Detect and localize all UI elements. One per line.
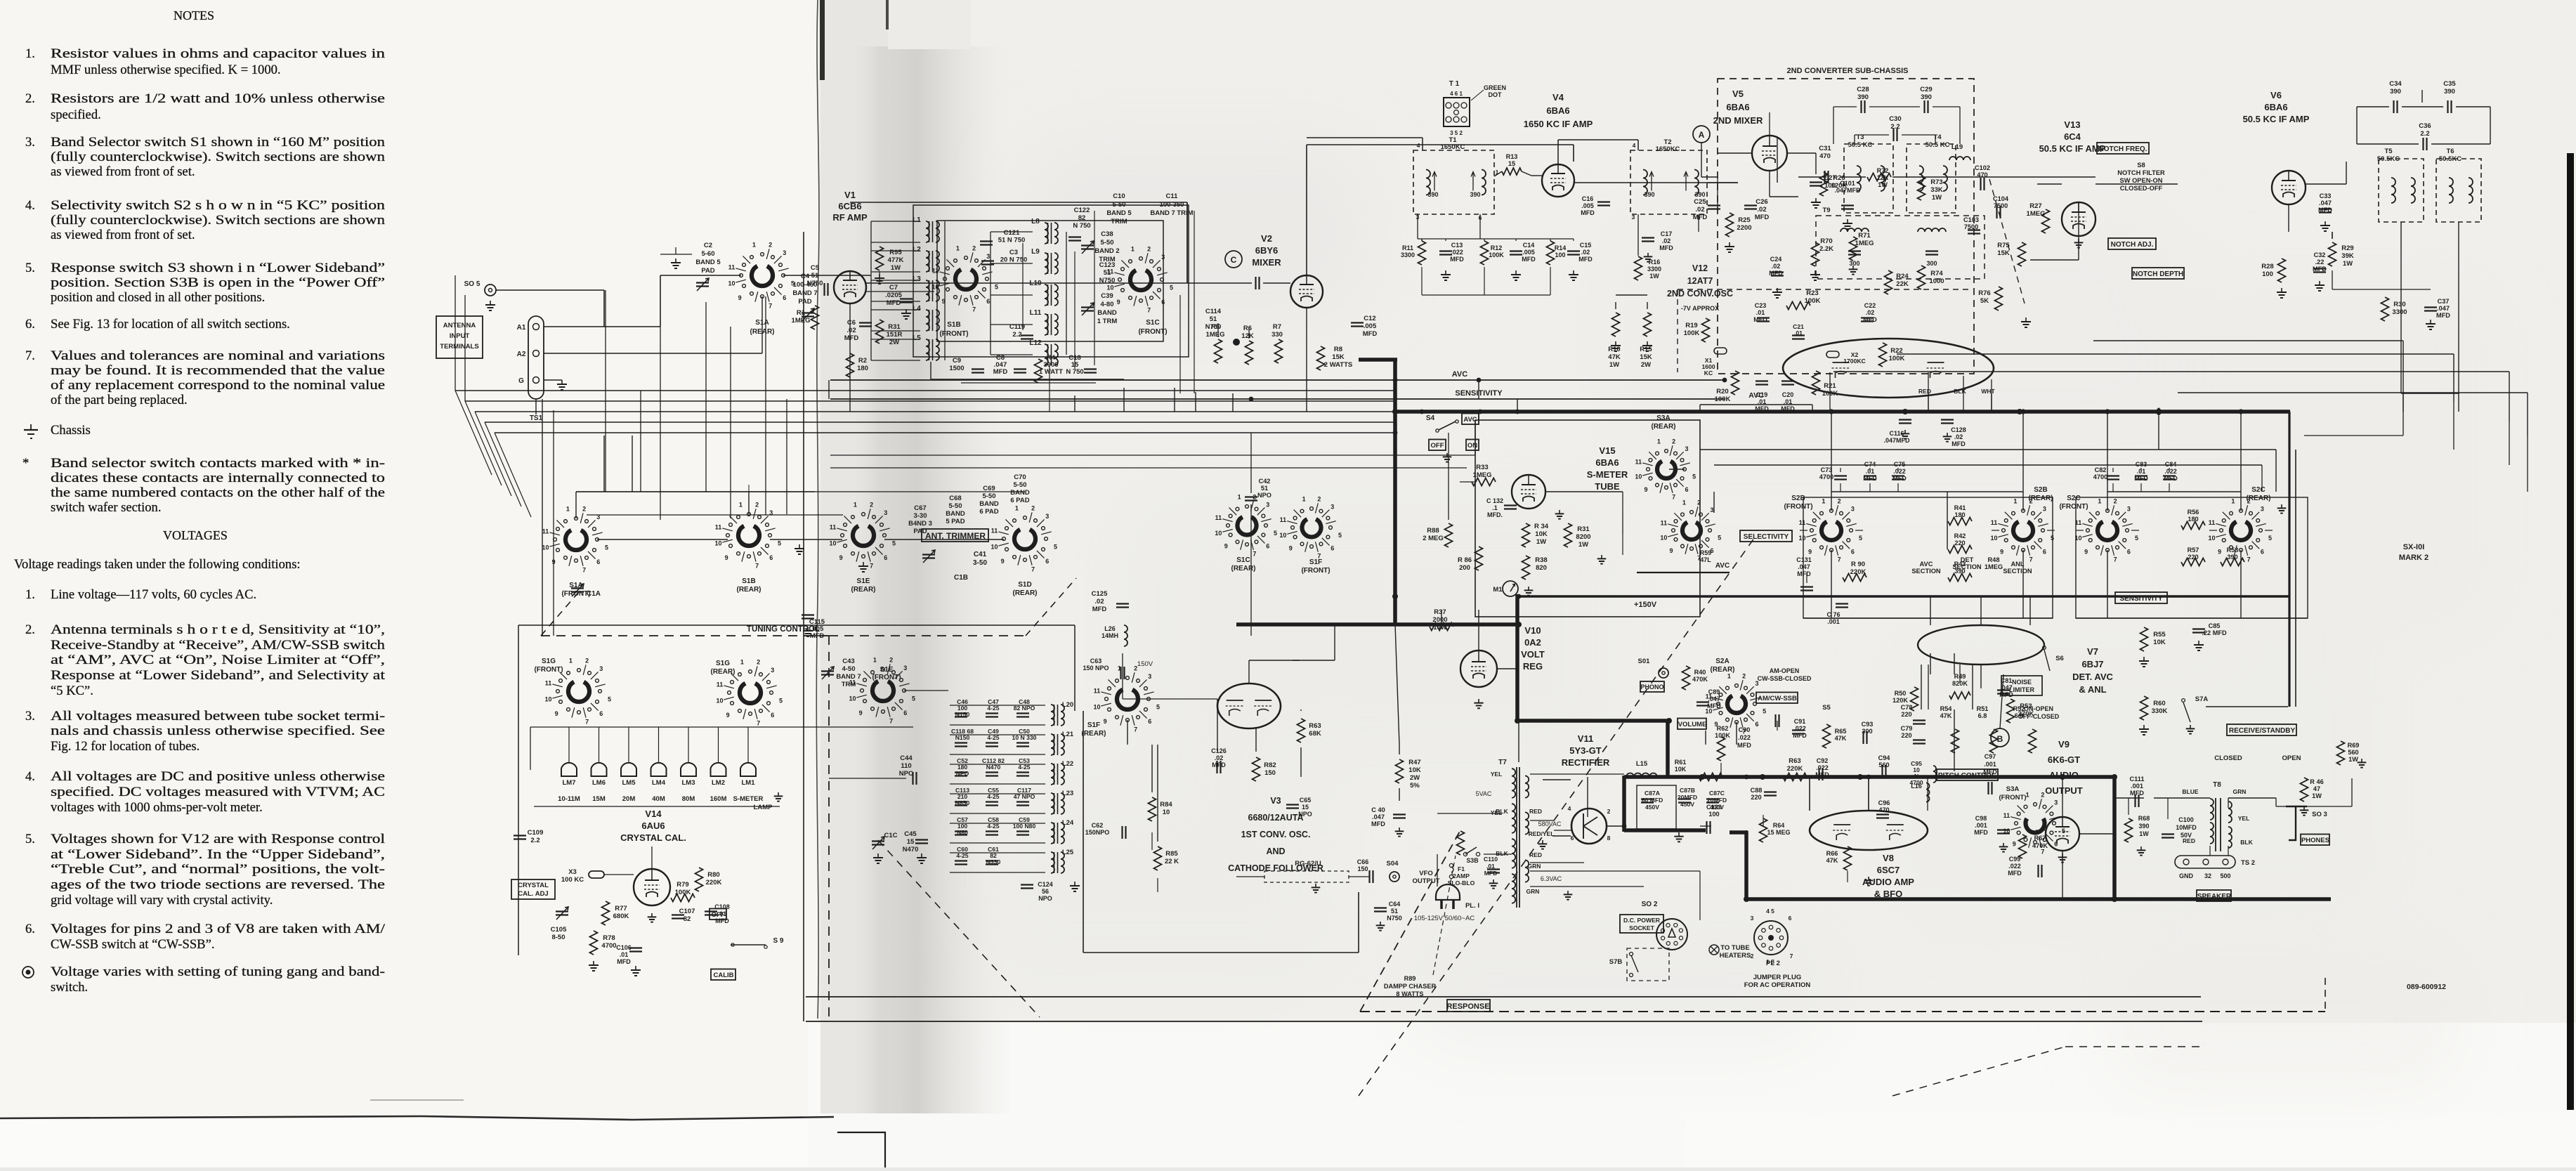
svg-text:1: 1 <box>1822 497 1825 504</box>
resistor R31 <box>876 320 884 344</box>
selectivity box label <box>1740 530 1792 542</box>
svg-text:MFD: MFD <box>1484 870 1498 877</box>
svg-text:2: 2 <box>769 242 772 249</box>
svg-text:MFD: MFD <box>1578 256 1593 263</box>
svg-text:RF AMP: RF AMP <box>832 212 868 223</box>
svg-text:5: 5 <box>605 544 608 551</box>
svg-text:5: 5 <box>2062 827 2065 835</box>
svg-text:MFD: MFD <box>1863 475 1877 482</box>
svg-text:V11: V11 <box>1578 733 1593 744</box>
svg-text:R79: R79 <box>676 881 688 889</box>
svg-text:1MEG: 1MEG <box>2027 210 2046 218</box>
svg-text:Voltages shown for V12 are wit: Voltages shown for V12 are with Response… <box>51 832 385 846</box>
capacitor C128 <box>1941 419 1954 420</box>
svg-text:L2: L2 <box>913 246 921 254</box>
svg-text:D.C. POWER: D.C. POWER <box>1623 917 1661 924</box>
resistor R15 <box>1644 313 1652 336</box>
svg-text:1: 1 <box>956 245 960 252</box>
antenna jack SO5 <box>485 284 496 296</box>
svg-text:100: 100 <box>2262 270 2273 278</box>
svg-text:820: 820 <box>1536 564 1547 572</box>
socket PL2 <box>1754 921 1788 955</box>
svg-text:.02: .02 <box>1866 309 1875 316</box>
svg-text:T9: T9 <box>1822 207 1830 214</box>
svg-text:1: 1 <box>2231 497 2235 504</box>
wire left page mesh horizontals <box>576 491 1025 492</box>
resistor R14 <box>1547 241 1555 265</box>
svg-text:C22: C22 <box>1864 302 1876 309</box>
wire V4 out <box>1574 182 1738 183</box>
svg-text:C42: C42 <box>1259 478 1271 485</box>
svg-text:1MEG: 1MEG <box>1985 563 2003 570</box>
svg-text:7: 7 <box>757 719 760 726</box>
svg-text:Band selector switch contacts: Band selector switch contacts marked wit… <box>51 456 385 471</box>
wire bottom rail 2 <box>806 1021 2202 1022</box>
node C circled <box>1225 251 1242 268</box>
svg-text:6: 6 <box>1266 543 1269 550</box>
resistor R77 <box>602 901 610 925</box>
svg-text:DET: DET <box>1961 556 1974 563</box>
svg-text:220K: 220K <box>706 879 722 887</box>
svg-text:10: 10 <box>545 696 552 703</box>
svg-text:SO 3: SO 3 <box>2312 811 2327 818</box>
svg-text:390: 390 <box>1694 191 1705 198</box>
svg-text:390: 390 <box>2138 823 2149 830</box>
svg-text:C93: C93 <box>1862 721 1874 728</box>
svg-text:C73: C73 <box>1821 466 1833 473</box>
svg-text:2ND MIXER: 2ND MIXER <box>1713 115 1763 126</box>
ground V10 <box>1478 699 1479 703</box>
svg-text:82: 82 <box>684 915 691 923</box>
junction <box>1392 594 1398 599</box>
svg-text:150: 150 <box>1264 769 1276 777</box>
svg-text:470: 470 <box>1878 806 1889 813</box>
svg-text:C6: C6 <box>847 319 856 327</box>
svg-text:NOTCH FREQ.: NOTCH FREQ. <box>2099 145 2147 153</box>
svg-text:SOCKET: SOCKET <box>1629 924 1655 931</box>
svg-text:N470: N470 <box>986 764 1001 771</box>
svg-text:R2: R2 <box>858 357 867 365</box>
ground S4 <box>1446 453 1448 457</box>
svg-text:(REAR): (REAR) <box>1013 589 1038 597</box>
ground s-meter <box>1528 587 1529 590</box>
svg-text:4-25: 4-25 <box>987 793 999 800</box>
svg-text:2: 2 <box>1742 672 1746 679</box>
svg-text:1: 1 <box>740 659 744 666</box>
svg-text:YEL: YEL <box>1491 771 1503 778</box>
svg-text:V1: V1 <box>844 190 856 200</box>
sensitivity box <box>2115 592 2167 603</box>
svg-text:(FRONT): (FRONT) <box>1301 567 1330 575</box>
svg-text:MMF unless otherwise specified: MMF unless otherwise specified. K = 1000… <box>51 63 281 77</box>
svg-text:R12: R12 <box>1491 244 1503 251</box>
svg-text:15K: 15K <box>1997 249 2010 257</box>
svg-text:C111: C111 <box>2130 776 2145 783</box>
switch S1E (REAR) <box>862 513 865 516</box>
svg-text:BAND: BAND <box>1097 309 1117 317</box>
svg-text:S2A: S2A <box>1715 658 1729 665</box>
capacitor C64 <box>1374 907 1387 908</box>
svg-text:4-50: 4-50 <box>842 665 855 673</box>
svg-text:L4: L4 <box>913 305 921 313</box>
svg-text:47 NPO: 47 NPO <box>1014 793 1035 800</box>
svg-text:3-30: 3-30 <box>913 512 927 520</box>
coil L15 <box>1626 773 1657 778</box>
svg-text:500: 500 <box>2220 872 2230 879</box>
jack SO1 phono <box>1659 668 1668 678</box>
ground VFO <box>1380 922 1381 925</box>
svg-text:5%: 5% <box>1410 782 1420 790</box>
svg-text:.02: .02 <box>846 327 856 334</box>
svg-text:50.5 KC: 50.5 KC <box>1848 141 1873 149</box>
svg-text:7: 7 <box>1031 565 1035 573</box>
svg-text:270K: 270K <box>2018 710 2034 718</box>
svg-text:Fig. 12 for location of tubes.: Fig. 12 for location of tubes. <box>51 739 200 754</box>
junction <box>2017 409 2022 414</box>
svg-text:.022: .022 <box>1816 764 1829 771</box>
svg-text:390: 390 <box>1644 191 1654 198</box>
svg-text:R59: R59 <box>1700 549 1712 556</box>
svg-text:9: 9 <box>1645 486 1648 493</box>
svg-text:CRYSTAL: CRYSTAL <box>518 882 549 889</box>
ground C37 <box>2430 320 2431 324</box>
svg-text:TRM: TRM <box>842 681 856 688</box>
svg-text:RED: RED <box>2183 837 2195 844</box>
svg-text:9: 9 <box>726 712 730 719</box>
svg-text:(REAR): (REAR) <box>737 586 761 594</box>
svg-text:7: 7 <box>1672 494 1675 501</box>
capacitor C29 <box>1923 100 1925 113</box>
svg-text:5: 5 <box>1718 535 1721 542</box>
svg-text:2.2K: 2.2K <box>1819 245 1833 253</box>
svg-text:2: 2 <box>1751 953 1754 960</box>
coil L22 <box>1051 764 1054 785</box>
capacitor C65 <box>1286 804 1299 805</box>
svg-text:100 KC: 100 KC <box>561 876 584 884</box>
wire subchassis drops <box>1717 177 1718 211</box>
capacitor C76 <box>1836 603 1848 604</box>
svg-text:3: 3 <box>771 667 774 674</box>
svg-text:1650 KC IF AMP: 1650 KC IF AMP <box>1524 119 1593 129</box>
svg-text:1W: 1W <box>2348 756 2358 763</box>
noise limiter box <box>2001 676 2042 695</box>
svg-text:R80: R80 <box>707 871 719 879</box>
svg-text:5-50: 5-50 <box>948 502 962 510</box>
response dashed diag <box>1360 829 1461 1012</box>
speaker box <box>2197 890 2231 901</box>
resistor R72 <box>1867 174 1891 181</box>
svg-text:1650KC: 1650KC <box>1656 145 1680 153</box>
gang dashed diagonal 3 <box>1892 1047 2065 1096</box>
svg-text:V14: V14 <box>645 809 662 819</box>
svg-text:R73: R73 <box>1930 178 1942 186</box>
svg-text:3: 3 <box>2043 506 2046 513</box>
svg-text:ages of the two triode section: ages of the two triode sections are reve… <box>51 877 385 892</box>
svg-text:NPO: NPO <box>956 770 969 777</box>
capacitor C91 <box>1792 729 1805 731</box>
svg-text:40M: 40M <box>652 795 665 803</box>
switch S1E (FRONT) <box>882 668 885 672</box>
svg-text:SECTION: SECTION <box>2003 568 2032 575</box>
svg-text:6: 6 <box>1851 548 1855 555</box>
tuning control dashed <box>541 635 829 636</box>
wire V3 bottom <box>1151 832 1153 850</box>
svg-text:.001: .001 <box>2131 783 2143 790</box>
svg-text:nals and chassis unless otherw: nals and chassis unless otherwise specif… <box>51 724 385 738</box>
svg-text:5: 5 <box>1170 284 1173 292</box>
wire B+ bus jog <box>1624 828 1706 832</box>
svg-text:3: 3 <box>986 253 990 260</box>
svg-text:AVC: AVC <box>1715 562 1730 570</box>
gang dashed diagonal 2 <box>878 840 1040 1017</box>
svg-text:3: 3 <box>1751 915 1754 922</box>
svg-text:10: 10 <box>715 540 722 547</box>
resistor R84 <box>1149 797 1156 821</box>
svg-text:MFD: MFD <box>1092 606 1107 613</box>
resistor R56 <box>2181 522 2205 530</box>
svg-text:2: 2 <box>755 502 759 509</box>
svg-text:L9: L9 <box>1031 248 1040 256</box>
svg-text:R60: R60 <box>2153 700 2165 707</box>
svg-text:15K: 15K <box>1332 353 1345 361</box>
svg-text:220: 220 <box>1954 539 1965 547</box>
wire V7 plate drops <box>1928 665 1929 709</box>
svg-text:10: 10 <box>1094 704 1101 711</box>
resistor R41 <box>1948 518 1972 525</box>
svg-text:1W: 1W <box>1649 273 1659 280</box>
capacitor C60 <box>955 860 967 861</box>
capacitor C104 <box>1996 206 1997 218</box>
svg-text:56: 56 <box>1042 888 1049 895</box>
grounds V13 <box>1815 270 1816 275</box>
svg-text:LAMP: LAMP <box>754 804 773 811</box>
svg-text:300: 300 <box>1926 260 1937 267</box>
svg-text:V15: V15 <box>1599 445 1615 456</box>
svg-text:YEL: YEL <box>2238 815 2250 822</box>
svg-text:R56: R56 <box>2188 509 2199 516</box>
svg-text:N470: N470 <box>903 846 919 853</box>
capacitor C22 <box>1861 317 1874 318</box>
svg-text:1700KC: 1700KC <box>1843 358 1866 365</box>
svg-text:160M: 160M <box>710 795 727 803</box>
capacitor C102 <box>1980 178 1981 190</box>
svg-text:C43: C43 <box>842 658 854 665</box>
svg-text:Receive-Standby at “Receive”,: Receive-Standby at “Receive”, AM/CW-SSB … <box>51 638 386 653</box>
svg-text:150V: 150V <box>1137 660 1153 668</box>
svg-text:R82: R82 <box>1264 761 1276 769</box>
svg-text:CRYSTAL CAL.: CRYSTAL CAL. <box>620 832 686 843</box>
svg-text:BAND 2: BAND 2 <box>1094 247 1119 255</box>
svg-text:100: 100 <box>1708 811 1719 818</box>
svg-text:6.: 6. <box>25 922 35 936</box>
svg-text:11: 11 <box>715 523 722 530</box>
resistor R27 <box>2042 209 2050 233</box>
svg-text:MFD: MFD <box>2318 207 2332 214</box>
svg-text:NPO: NPO <box>899 770 914 778</box>
wire T5 T6 loops <box>2357 106 2389 107</box>
svg-text:TO TUBE: TO TUBE <box>1720 944 1750 952</box>
svg-text:.047MFD: .047MFD <box>1834 187 1861 194</box>
coil L16 <box>1926 783 1930 802</box>
svg-text:MFD: MFD <box>1737 742 1751 749</box>
svg-text:C105: C105 <box>551 926 567 934</box>
svg-text:S01: S01 <box>1638 658 1651 665</box>
lamp LM5 <box>621 763 636 776</box>
capacitor 300 a <box>1848 250 1861 251</box>
capacitor C101 <box>1841 204 1854 206</box>
svg-text:MFD: MFD <box>2436 312 2450 319</box>
wire V1 plate <box>866 282 1187 284</box>
resistor R37 <box>1430 623 1453 631</box>
svg-text:R88: R88 <box>1427 527 1439 535</box>
svg-text:1: 1 <box>2098 497 2101 504</box>
coil L21 <box>1051 734 1054 755</box>
svg-text:180: 180 <box>857 365 868 372</box>
wire V1 cathode <box>849 303 851 393</box>
svg-text:6: 6 <box>1755 721 1758 728</box>
ground S1B rear <box>799 544 800 549</box>
svg-text:L15: L15 <box>1636 760 1648 768</box>
svg-text:6.3VAC: 6.3VAC <box>1541 875 1562 882</box>
svg-text:C96: C96 <box>1878 799 1890 806</box>
svg-text:.02: .02 <box>1772 263 1781 270</box>
resistor R4 <box>1035 359 1042 383</box>
svg-text:All voltages are DC and positi: All voltages are DC and positive unless … <box>51 769 385 784</box>
trimmer C105 <box>556 910 568 912</box>
svg-text:3: 3 <box>1266 501 1269 508</box>
svg-text:8-50: 8-50 <box>551 934 565 941</box>
svg-text:of the part being replaced.: of the part being replaced. <box>51 393 188 407</box>
svg-text:2: 2 <box>1607 808 1611 815</box>
svg-text:S1G: S1G <box>716 660 730 667</box>
svg-text:1: 1 <box>1682 499 1686 506</box>
svg-text:2.2: 2.2 <box>1890 123 1900 131</box>
wire V11 plates <box>1554 830 1571 831</box>
svg-text:WHT: WHT <box>1981 388 1995 395</box>
svg-text:+150V: +150V <box>1634 601 1657 609</box>
wire V9 grid <box>2036 830 2046 831</box>
svg-text:3: 3 <box>903 665 907 672</box>
svg-text:300: 300 <box>1862 728 1872 735</box>
svg-text:1: 1 <box>566 506 570 513</box>
plug PL1 <box>1436 884 1460 900</box>
svg-text:C100: C100 <box>2178 816 2194 823</box>
svg-text:C107: C107 <box>679 908 695 915</box>
svg-text:4 6 1: 4 6 1 <box>1450 91 1463 97</box>
coil L10 <box>1045 284 1048 306</box>
svg-text:dicates these contacts are int: dicates these contacts are internally co… <box>51 471 385 485</box>
svg-text:1.: 1. <box>25 587 35 602</box>
svg-text:F1: F1 <box>1458 865 1465 872</box>
svg-text:Selectivity switch S2 s h o w: Selectivity switch S2 s h o w n in “5 KC… <box>51 198 386 213</box>
resistor R53 <box>2007 699 2015 723</box>
svg-text:BAND 7: BAND 7 <box>836 673 861 681</box>
capacitor C7 <box>900 298 913 299</box>
wire bottom rail 1 <box>806 996 2201 997</box>
resistor R28 <box>2278 259 2286 282</box>
svg-text:4-25: 4-25 <box>987 705 999 712</box>
svg-text:L23: L23 <box>1062 790 1073 797</box>
tube V7 envelope <box>1918 625 2044 665</box>
svg-text:L10: L10 <box>1029 280 1042 287</box>
svg-text:3: 3 <box>2261 506 2264 513</box>
svg-text:R23: R23 <box>1806 289 1818 297</box>
svg-text:R55: R55 <box>2153 631 2166 639</box>
junction <box>1699 774 1705 780</box>
resistor R33 <box>1472 478 1496 486</box>
svg-text:450V: 450V <box>1645 804 1659 811</box>
svg-text:C37: C37 <box>2438 298 2450 305</box>
resistor R74 <box>1918 266 1926 289</box>
notch depth box <box>2132 268 2184 279</box>
svg-text:S1F: S1F <box>1087 721 1100 729</box>
svg-text:MFD: MFD <box>2313 266 2327 273</box>
svg-text:BAND 5: BAND 5 <box>1106 209 1132 217</box>
wire nested top right <box>2093 340 2403 341</box>
svg-text:C75: C75 <box>1894 461 1906 468</box>
svg-text:C87B: C87B <box>1680 787 1695 794</box>
svg-text:S-METER: S-METER <box>733 795 764 803</box>
svg-text:TERMINALS: TERMINALS <box>440 343 478 351</box>
capacitor C20 <box>1781 380 1794 381</box>
notch dashed linkage <box>1989 179 2025 303</box>
svg-text:10K: 10K <box>1535 530 1548 538</box>
resistor R11 <box>1418 241 1426 265</box>
svg-text:L26: L26 <box>1104 625 1116 632</box>
svg-text:MFD: MFD <box>1781 405 1795 412</box>
svg-text:R31: R31 <box>1577 525 1590 533</box>
svg-text:C65: C65 <box>1300 797 1312 804</box>
svg-text:.02: .02 <box>1215 754 1224 761</box>
resistor R38 <box>1522 556 1530 580</box>
wire V14 mesh <box>604 874 634 875</box>
svg-text:5-50: 5-50 <box>1112 201 1125 209</box>
svg-text:T4: T4 <box>1933 133 1942 141</box>
svg-text:C87C: C87C <box>1709 790 1725 797</box>
svg-text:.01: .01 <box>1756 309 1765 316</box>
svg-text:2.: 2. <box>25 91 35 106</box>
svg-text:10 N 330: 10 N 330 <box>1012 734 1037 741</box>
svg-text:S8: S8 <box>2137 162 2145 169</box>
svg-text:470K: 470K <box>1692 676 1708 683</box>
svg-text:VFO: VFO <box>1419 870 1433 877</box>
svg-text:1: 1 <box>739 502 743 509</box>
wire S1E front mesh <box>904 690 948 691</box>
svg-text:R84: R84 <box>1160 801 1172 809</box>
svg-text:SECTION: SECTION <box>1911 568 1941 575</box>
svg-text:50.5 KC IF AMP: 50.5 KC IF AMP <box>2243 114 2310 124</box>
svg-text:11: 11 <box>1661 519 1668 526</box>
svg-text:110: 110 <box>901 762 911 770</box>
svg-text:SPEAKER: SPEAKER <box>2197 893 2232 901</box>
resistor R10 <box>1612 313 1620 336</box>
switch S3A front rotor <box>2034 803 2037 806</box>
svg-text:220: 220 <box>1901 711 1911 718</box>
resistor R47 <box>1396 759 1404 783</box>
extra junction dots <box>1420 410 1425 414</box>
svg-text:120K: 120K <box>1892 697 1908 704</box>
svg-text:C20: C20 <box>1782 391 1794 398</box>
svg-text:10: 10 <box>2208 535 2215 542</box>
switch S1C (FRONT) <box>1139 257 1143 261</box>
svg-text:6: 6 <box>2043 548 2046 555</box>
wire +150V bus <box>1517 595 2289 598</box>
svg-text:.047: .047 <box>1708 695 1720 702</box>
wire V2 plate top <box>1306 145 1307 275</box>
resistor R52 <box>2029 729 2036 753</box>
svg-text:7500: 7500 <box>1964 223 1978 230</box>
svg-text:L19: L19 <box>1951 143 1963 151</box>
